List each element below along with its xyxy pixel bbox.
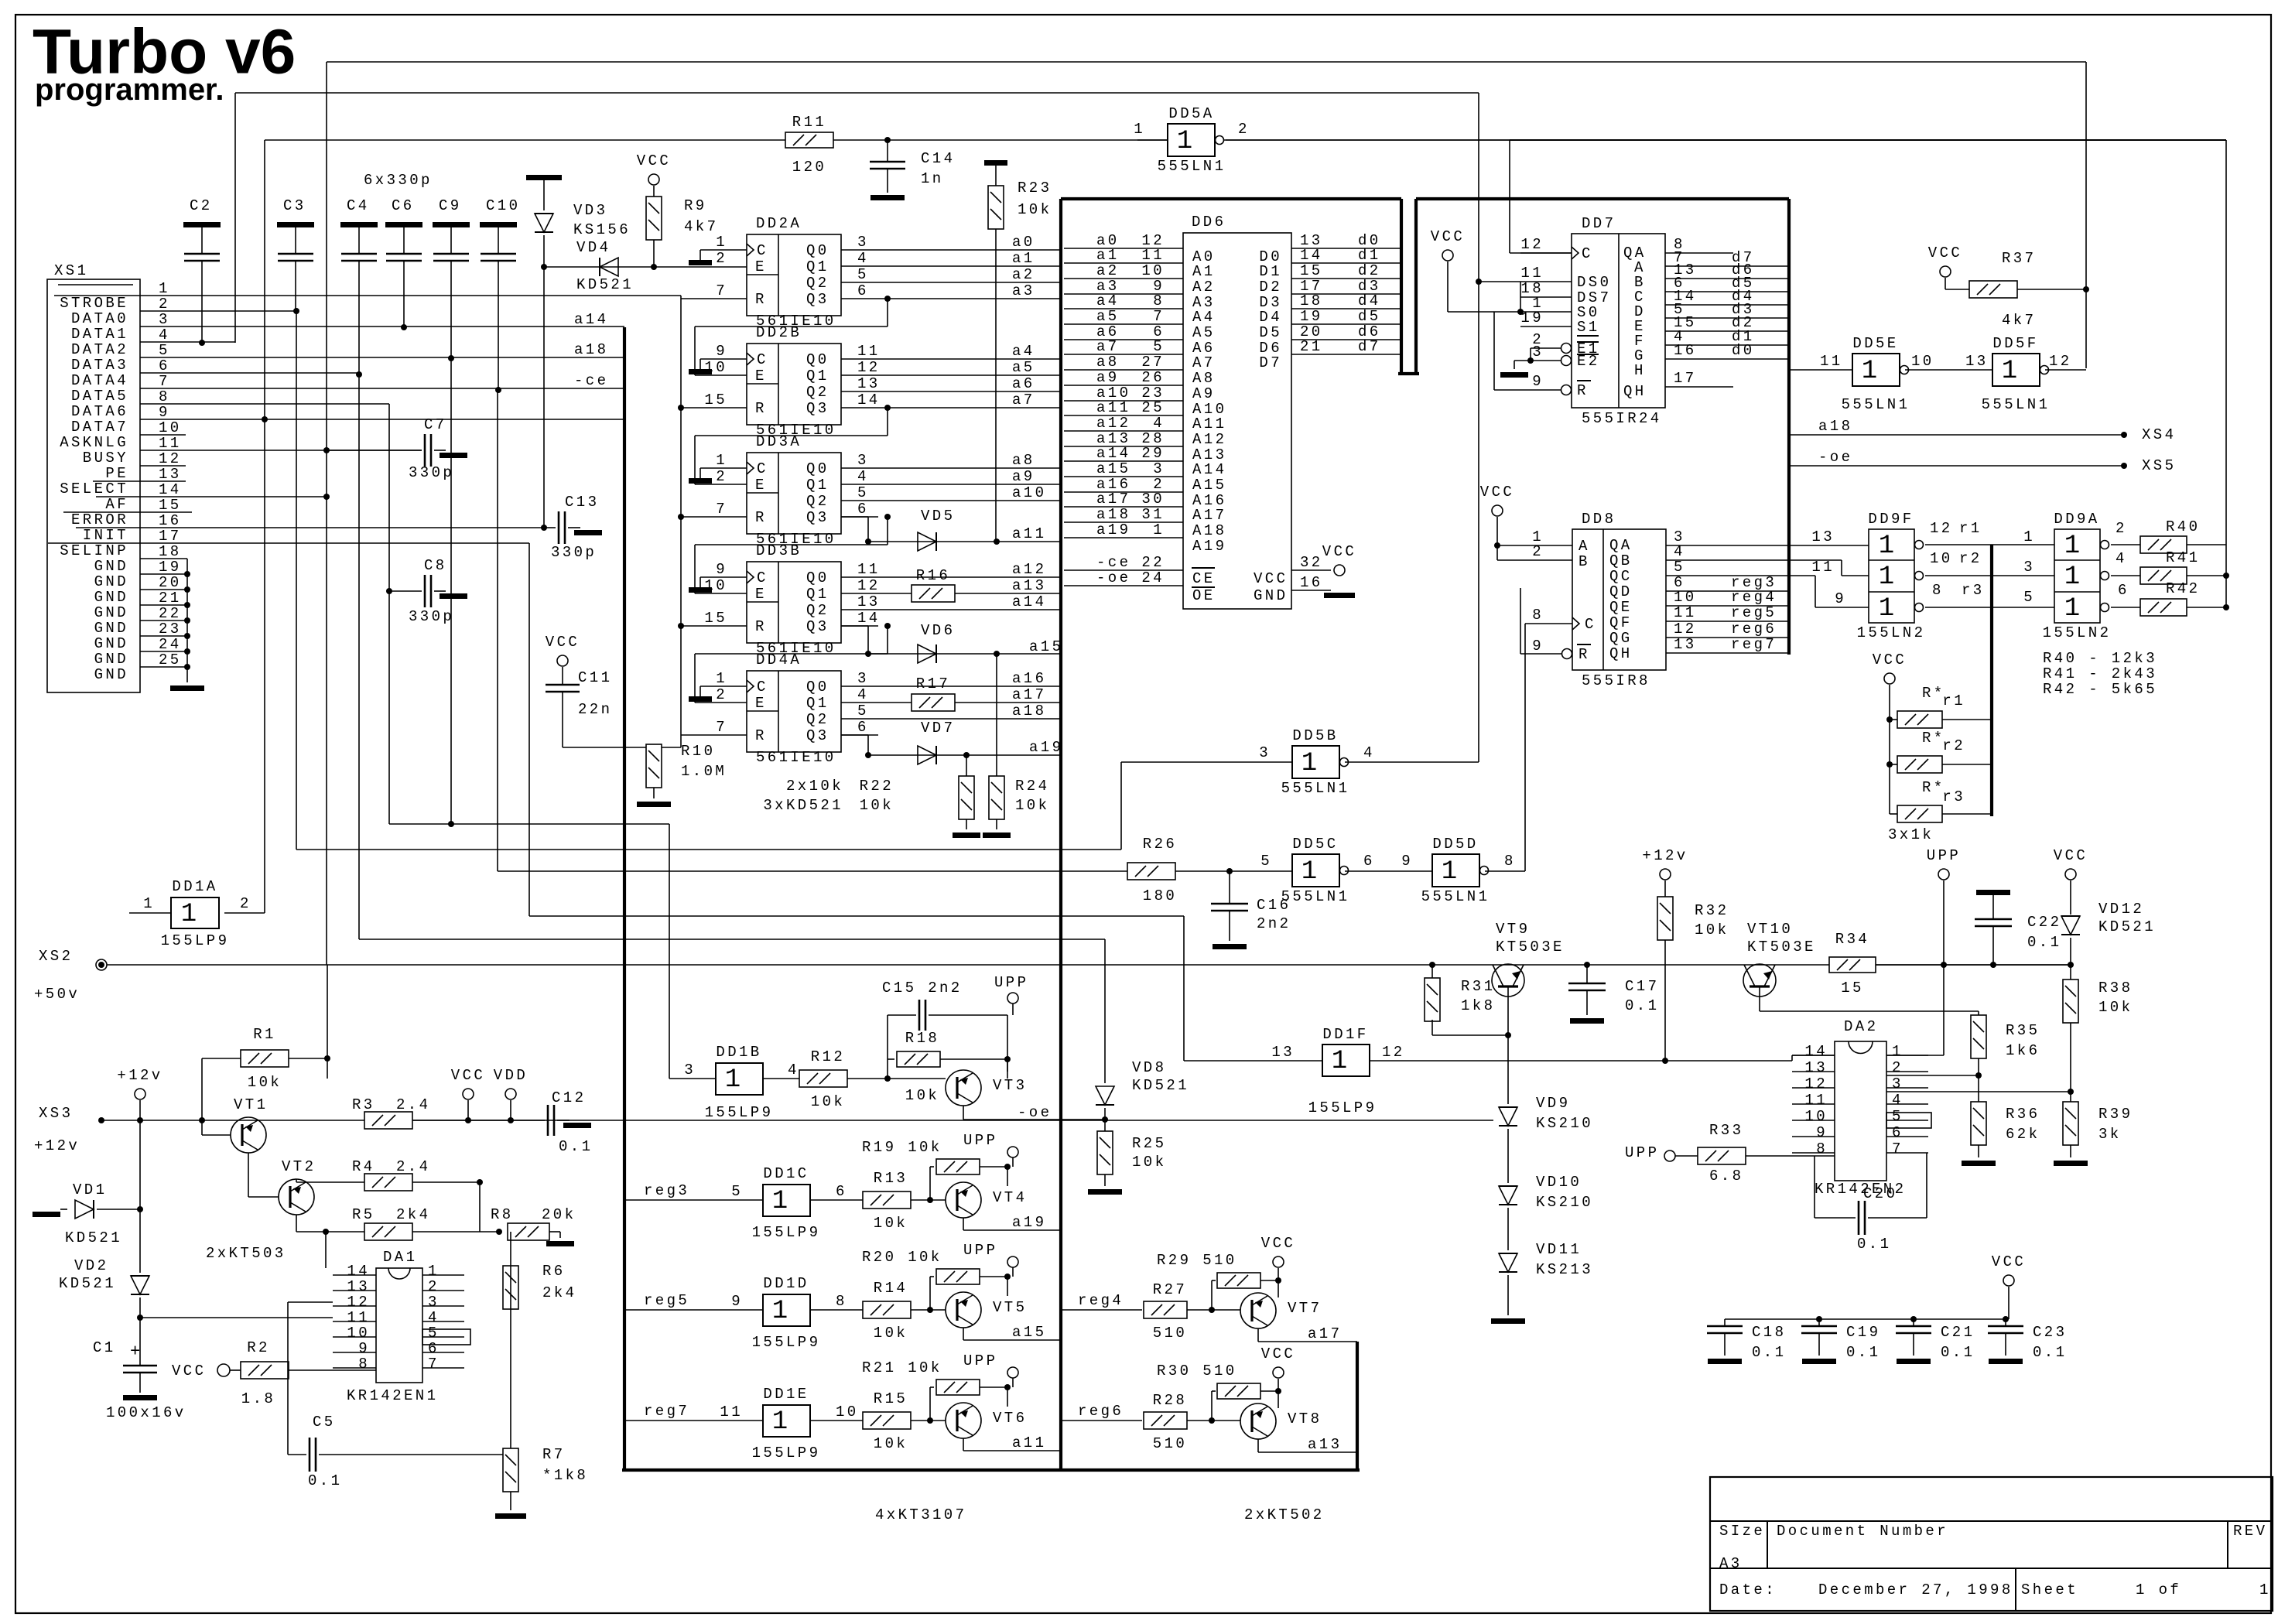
svg-text:C16: C16	[1257, 897, 1291, 914]
svg-text:R27: R27	[1153, 1281, 1187, 1298]
svg-text:A7: A7	[1192, 354, 1216, 371]
svg-text:KT503E: KT503E	[1496, 939, 1565, 956]
svg-text:AF: AF	[105, 496, 128, 513]
svg-text:Q0: Q0	[806, 242, 829, 259]
svg-text:1: 1	[1862, 357, 1877, 386]
svg-text:a8: a8	[1012, 452, 1035, 469]
svg-text:a0: a0	[1012, 234, 1035, 251]
svg-text:reg5: reg5	[1731, 604, 1777, 621]
svg-text:Document Number: Document Number	[1777, 1523, 1948, 1540]
svg-text:+: +	[130, 1342, 140, 1362]
svg-text:DA1: DA1	[383, 1249, 417, 1266]
svg-text:155LP9: 155LP9	[752, 1334, 821, 1351]
svg-text:4: 4	[1674, 543, 1685, 560]
svg-text:4: 4	[2116, 550, 2127, 567]
svg-text:VD5: VD5	[921, 508, 955, 525]
svg-text:a1: a1	[1012, 250, 1035, 267]
svg-text:0.1: 0.1	[1752, 1344, 1786, 1361]
svg-text:12: 12	[857, 577, 881, 594]
svg-text:21: 21	[1300, 338, 1323, 355]
svg-text:XS3: XS3	[39, 1105, 73, 1122]
svg-text:QH: QH	[1609, 645, 1633, 662]
svg-text:1.0M: 1.0M	[681, 763, 727, 780]
svg-text:A18: A18	[1192, 522, 1226, 539]
svg-text:13: 13	[857, 375, 881, 392]
svg-text:16: 16	[1300, 574, 1323, 591]
svg-text:3: 3	[428, 1294, 440, 1311]
svg-text:DD5E: DD5E	[1852, 335, 1898, 352]
svg-text:C15 2n2: C15 2n2	[882, 980, 963, 997]
svg-text:4: 4	[857, 686, 869, 703]
svg-text:2: 2	[1532, 543, 1544, 560]
svg-text:3: 3	[1532, 344, 1544, 361]
svg-text:Date:: Date:	[1719, 1581, 1777, 1598]
svg-text:11: 11	[159, 435, 182, 452]
svg-text:8: 8	[1504, 853, 1516, 870]
svg-text:VCC: VCC	[1480, 484, 1514, 501]
svg-text:Sheet: Sheet	[2021, 1581, 2078, 1598]
svg-text:a12: a12	[1012, 561, 1046, 578]
svg-text:KR142EN1: KR142EN1	[347, 1387, 438, 1404]
svg-text:ASKNLG: ASKNLG	[60, 434, 128, 451]
svg-text:0.1: 0.1	[1846, 1344, 1880, 1361]
svg-text:25: 25	[1141, 399, 1165, 416]
svg-text:R35: R35	[2006, 1022, 2040, 1039]
svg-text:a13: a13	[1012, 577, 1046, 594]
svg-text:R8: R8	[491, 1206, 514, 1223]
svg-text:DATA4: DATA4	[71, 372, 128, 389]
svg-text:10k: 10k	[2098, 999, 2133, 1016]
svg-text:10: 10	[1911, 353, 1934, 370]
svg-text:GND: GND	[94, 666, 128, 683]
svg-text:3: 3	[1259, 744, 1271, 761]
svg-text:UPP: UPP	[994, 974, 1028, 991]
svg-text:GND: GND	[94, 620, 128, 637]
svg-text:a18: a18	[1818, 418, 1852, 435]
svg-text:KS210: KS210	[1536, 1194, 1593, 1211]
svg-text:A17: A17	[1192, 507, 1226, 524]
svg-text:8: 8	[1816, 1140, 1828, 1157]
svg-text:8: 8	[1932, 582, 1944, 599]
svg-text:R: R	[755, 509, 767, 526]
svg-text:a10: a10	[1012, 484, 1046, 501]
svg-text:Q0: Q0	[806, 351, 829, 368]
svg-text:C: C	[757, 460, 768, 477]
svg-text:VT2: VT2	[282, 1158, 316, 1175]
svg-text:10: 10	[836, 1403, 859, 1421]
svg-text:561IE10: 561IE10	[756, 749, 836, 766]
svg-text:GND: GND	[94, 573, 128, 590]
svg-text:11: 11	[347, 1309, 370, 1326]
svg-text:DA2: DA2	[1844, 1018, 1878, 1035]
svg-text:ERROR: ERROR	[71, 511, 128, 528]
svg-text:R6: R6	[542, 1263, 566, 1280]
svg-text:R10: R10	[681, 743, 715, 760]
svg-text:17: 17	[159, 528, 182, 545]
svg-text:reg3: reg3	[644, 1182, 689, 1199]
svg-text:A15: A15	[1192, 477, 1226, 494]
svg-text:1k8: 1k8	[1461, 997, 1495, 1014]
svg-text:4: 4	[159, 327, 170, 344]
svg-text:Q0: Q0	[806, 679, 829, 696]
svg-text:VT9: VT9	[1496, 921, 1530, 938]
svg-text:Q3: Q3	[806, 618, 829, 635]
svg-text:VT8: VT8	[1288, 1410, 1322, 1427]
svg-text:10k: 10k	[1015, 797, 1049, 814]
svg-text:4: 4	[857, 250, 869, 267]
svg-text:6: 6	[159, 357, 170, 374]
svg-text:2k4: 2k4	[396, 1206, 430, 1223]
svg-text:2x10k: 2x10k	[786, 778, 843, 795]
svg-text:QB: QB	[1609, 552, 1633, 569]
svg-text:3: 3	[1153, 460, 1165, 477]
svg-text:QC: QC	[1609, 568, 1633, 585]
svg-text:reg5: reg5	[644, 1292, 689, 1309]
svg-text:XS4: XS4	[2142, 426, 2176, 443]
svg-text:a18: a18	[574, 341, 608, 358]
svg-text:25: 25	[159, 651, 182, 668]
svg-text:555IR24: 555IR24	[1582, 410, 1662, 427]
svg-text:R7: R7	[542, 1446, 566, 1463]
svg-text:R2: R2	[247, 1339, 270, 1356]
svg-text:a16: a16	[1012, 670, 1046, 687]
svg-text:GND: GND	[1254, 587, 1288, 604]
svg-text:0.1: 0.1	[559, 1138, 593, 1155]
svg-text:a7: a7	[1096, 338, 1120, 355]
svg-text:a15: a15	[1012, 1324, 1046, 1341]
svg-text:VD1: VD1	[73, 1181, 107, 1198]
svg-text:1: 1	[1134, 121, 1145, 138]
svg-text:R36: R36	[2006, 1106, 2040, 1123]
svg-text:DD5B: DD5B	[1292, 727, 1338, 744]
svg-text:QD: QD	[1609, 583, 1633, 600]
svg-text:a4: a4	[1012, 343, 1035, 360]
svg-text:5: 5	[1153, 338, 1165, 355]
svg-text:a19: a19	[1096, 521, 1130, 538]
svg-text:DD1B: DD1B	[716, 1044, 761, 1061]
svg-text:32: 32	[1300, 554, 1323, 571]
svg-text:DD6: DD6	[1192, 214, 1226, 231]
svg-text:26: 26	[1141, 369, 1165, 386]
svg-text:D4: D4	[1259, 309, 1282, 326]
svg-text:155LP9: 155LP9	[752, 1445, 821, 1462]
svg-text:DD1D: DD1D	[763, 1275, 809, 1292]
svg-text:QG: QG	[1609, 630, 1633, 647]
svg-text:KD521: KD521	[2098, 918, 2156, 935]
svg-text:R4: R4	[352, 1158, 375, 1175]
svg-text:VCC: VCC	[546, 634, 580, 651]
svg-text:R30 510: R30 510	[1157, 1362, 1237, 1380]
svg-text:22: 22	[1141, 554, 1165, 571]
svg-text:XS5: XS5	[2142, 457, 2176, 474]
svg-text:OE: OE	[1192, 587, 1216, 604]
svg-text:C1: C1	[93, 1339, 116, 1356]
svg-text:9: 9	[358, 1340, 370, 1357]
svg-text:22n: 22n	[578, 701, 612, 718]
svg-text:1: 1	[143, 895, 155, 912]
svg-text:14: 14	[857, 610, 881, 627]
svg-text:510: 510	[1153, 1435, 1187, 1452]
svg-text:16: 16	[159, 512, 182, 529]
svg-text:D1: D1	[1259, 263, 1282, 280]
svg-text:6: 6	[1892, 1124, 1903, 1141]
svg-text:1: 1	[159, 280, 170, 297]
svg-text:13: 13	[1271, 1044, 1295, 1061]
svg-text:10: 10	[1141, 262, 1165, 279]
svg-text:E: E	[755, 477, 767, 494]
svg-text:XS2: XS2	[39, 948, 73, 965]
svg-text:3k: 3k	[2098, 1126, 2122, 1143]
svg-text:Q1: Q1	[806, 586, 829, 603]
svg-text:22: 22	[159, 605, 182, 622]
svg-text:R17: R17	[916, 675, 950, 692]
svg-text:19: 19	[1300, 308, 1323, 325]
svg-text:6x330p: 6x330p	[364, 172, 433, 189]
svg-text:QE: QE	[1609, 599, 1633, 616]
svg-text:4: 4	[788, 1062, 799, 1079]
svg-text:12: 12	[857, 359, 881, 376]
svg-text:KT503E: KT503E	[1747, 939, 1816, 956]
svg-text:D7: D7	[1259, 354, 1282, 371]
svg-text:13: 13	[1804, 1059, 1828, 1076]
svg-text:6: 6	[1363, 853, 1375, 870]
svg-text:a13: a13	[1308, 1436, 1342, 1453]
svg-text:10k: 10k	[905, 1087, 939, 1104]
svg-text:1: 1	[772, 1187, 788, 1216]
svg-text:a14: a14	[1096, 445, 1130, 462]
svg-text:-ce: -ce	[574, 372, 608, 389]
svg-text:555LN1: 555LN1	[1842, 396, 1910, 413]
svg-text:9: 9	[1532, 638, 1544, 655]
svg-text:14: 14	[159, 481, 182, 498]
svg-text:Q1: Q1	[806, 368, 829, 385]
svg-text:155LP9: 155LP9	[1308, 1099, 1377, 1116]
svg-text:C14: C14	[921, 150, 955, 167]
svg-text:1: 1	[1879, 594, 1894, 624]
svg-text:R31: R31	[1461, 978, 1495, 995]
svg-text:R11: R11	[792, 114, 826, 131]
svg-text:14: 14	[1300, 247, 1323, 264]
svg-text:VCC: VCC	[1928, 244, 1962, 262]
svg-text:D5: D5	[1259, 324, 1282, 341]
svg-text:1: 1	[1879, 562, 1894, 592]
svg-text:13: 13	[1965, 353, 1989, 370]
svg-text:R37: R37	[2002, 250, 2036, 267]
svg-text:-ce: -ce	[1096, 554, 1130, 571]
svg-text:1: 1	[2023, 528, 2035, 545]
svg-text:a14: a14	[1012, 593, 1046, 610]
svg-text:VCC: VCC	[1431, 228, 1465, 245]
svg-text:DATA2: DATA2	[71, 341, 128, 358]
svg-text:REV: REV	[2233, 1523, 2267, 1540]
svg-text:12: 12	[347, 1294, 370, 1311]
svg-text:KD521: KD521	[1132, 1077, 1189, 1094]
svg-text:0.1: 0.1	[2027, 934, 2061, 951]
svg-text:C4: C4	[347, 197, 370, 214]
svg-text:VD3: VD3	[573, 202, 607, 219]
svg-text:a18: a18	[1012, 703, 1046, 720]
svg-text:12: 12	[159, 450, 182, 467]
svg-text:reg4: reg4	[1731, 589, 1777, 606]
svg-text:R41: R41	[2166, 549, 2200, 566]
svg-text:R28: R28	[1153, 1392, 1187, 1409]
svg-text:r1: r1	[1959, 520, 1982, 537]
svg-text:A8: A8	[1192, 370, 1216, 387]
svg-text:1n: 1n	[921, 170, 944, 187]
svg-text:INIT: INIT	[83, 527, 128, 544]
svg-text:7: 7	[1892, 1140, 1903, 1157]
svg-text:Q3: Q3	[806, 727, 829, 744]
svg-text:R42 - 5k65: R42 - 5k65	[2043, 681, 2157, 698]
svg-text:11: 11	[720, 1403, 743, 1421]
svg-text:C21: C21	[1941, 1324, 1975, 1341]
svg-text:R*: R*	[1922, 685, 1945, 702]
svg-text:10: 10	[1674, 589, 1697, 606]
svg-text:C10: C10	[486, 197, 520, 214]
svg-text:d1: d1	[1358, 247, 1381, 264]
svg-text:Q0: Q0	[806, 460, 829, 477]
svg-text:DD5A: DD5A	[1168, 105, 1214, 122]
svg-text:2xKT503: 2xKT503	[206, 1245, 286, 1262]
svg-text:reg6: reg6	[1078, 1403, 1124, 1420]
svg-text:R*: R*	[1922, 779, 1945, 796]
svg-text:reg6: reg6	[1731, 621, 1777, 638]
svg-text:S1: S1	[1577, 319, 1600, 336]
svg-text:E: E	[755, 368, 767, 385]
svg-text:1: 1	[1177, 127, 1192, 156]
svg-text:R*: R*	[1922, 730, 1945, 747]
svg-text:VT3: VT3	[993, 1077, 1027, 1094]
svg-text:C23: C23	[2033, 1324, 2067, 1341]
svg-text:A9: A9	[1192, 385, 1216, 402]
svg-text:r3: r3	[1942, 788, 1965, 805]
svg-text:30: 30	[1141, 491, 1165, 508]
svg-text:24: 24	[159, 636, 182, 653]
svg-text:Q2: Q2	[806, 384, 829, 401]
svg-text:2.4: 2.4	[396, 1158, 430, 1175]
svg-text:1.8: 1.8	[241, 1390, 275, 1407]
svg-text:a9: a9	[1096, 369, 1120, 386]
svg-text:R32: R32	[1695, 902, 1729, 919]
svg-text:9: 9	[731, 1293, 743, 1310]
svg-text:C7: C7	[424, 416, 447, 433]
svg-text:17: 17	[1674, 370, 1697, 387]
svg-text:R38: R38	[2098, 980, 2133, 997]
svg-text:+12v: +12v	[1642, 847, 1688, 864]
svg-text:DS0: DS0	[1577, 274, 1611, 291]
svg-text:VD9: VD9	[1536, 1095, 1570, 1112]
svg-text:1: 1	[181, 900, 197, 929]
svg-text:Q1: Q1	[806, 258, 829, 275]
svg-text:a19: a19	[1012, 1214, 1046, 1231]
svg-text:VD4: VD4	[576, 239, 611, 256]
svg-text:3: 3	[684, 1062, 696, 1079]
svg-text:+12v: +12v	[117, 1067, 162, 1084]
svg-text:DATA7: DATA7	[71, 419, 128, 436]
svg-text:10: 10	[159, 419, 182, 436]
svg-text:R24: R24	[1015, 778, 1049, 795]
svg-text:R13: R13	[874, 1170, 908, 1187]
svg-text:4xKT3107: 4xKT3107	[875, 1506, 966, 1523]
svg-text:12: 12	[1674, 621, 1697, 638]
svg-text:r3: r3	[1962, 582, 1985, 599]
svg-text:a5: a5	[1096, 308, 1120, 325]
svg-text:8: 8	[836, 1293, 847, 1310]
svg-text:3x1k: 3x1k	[1888, 826, 1934, 843]
svg-text:VD10: VD10	[1536, 1174, 1582, 1191]
svg-text:3xKD521: 3xKD521	[763, 797, 843, 814]
svg-text:reg7: reg7	[644, 1403, 689, 1420]
svg-text:QA: QA	[1609, 537, 1633, 554]
svg-text:6: 6	[857, 719, 869, 736]
svg-text:18: 18	[1300, 292, 1323, 309]
svg-text:10k: 10k	[1132, 1154, 1166, 1171]
svg-text:a15: a15	[1096, 460, 1130, 477]
svg-text:0.1: 0.1	[2033, 1344, 2067, 1361]
svg-text:Q1: Q1	[806, 477, 829, 494]
svg-text:DD1C: DD1C	[763, 1165, 809, 1182]
svg-text:a4: a4	[1096, 292, 1120, 309]
svg-text:6: 6	[857, 501, 869, 518]
svg-text:KD521: KD521	[59, 1275, 116, 1292]
svg-text:R22: R22	[860, 778, 894, 795]
svg-text:R: R	[755, 291, 767, 308]
svg-text:R1: R1	[253, 1026, 276, 1043]
svg-text:15: 15	[704, 610, 727, 627]
svg-text:VD7: VD7	[921, 720, 955, 737]
svg-text:9: 9	[159, 404, 170, 421]
svg-text:DD2A: DD2A	[756, 215, 802, 232]
svg-text:DD7: DD7	[1582, 215, 1616, 232]
svg-text:330p: 330p	[409, 464, 454, 481]
svg-text:DD8: DD8	[1582, 511, 1616, 528]
svg-text:1: 1	[1879, 532, 1894, 561]
svg-text:QF: QF	[1609, 614, 1633, 631]
svg-text:5: 5	[159, 342, 170, 359]
svg-text:11: 11	[1820, 353, 1843, 370]
svg-text:GND: GND	[94, 635, 128, 652]
svg-text:programmer.: programmer.	[35, 73, 224, 107]
svg-text:155LP9: 155LP9	[161, 932, 230, 949]
svg-text:13: 13	[159, 466, 182, 483]
svg-text:Q3: Q3	[806, 509, 829, 526]
svg-text:8: 8	[159, 388, 170, 405]
svg-text:C19: C19	[1846, 1324, 1880, 1341]
svg-text:1: 1	[1892, 1043, 1903, 1060]
svg-text:1: 1	[1301, 749, 1317, 778]
svg-text:VT7: VT7	[1288, 1300, 1322, 1317]
svg-text:15: 15	[159, 497, 182, 514]
svg-text:D2: D2	[1259, 279, 1282, 296]
svg-text:R12: R12	[811, 1048, 845, 1065]
svg-text:A12: A12	[1192, 431, 1226, 448]
svg-text:5: 5	[428, 1325, 440, 1342]
svg-text:24: 24	[1141, 569, 1165, 586]
svg-text:11: 11	[857, 343, 881, 360]
svg-text:1: 1	[428, 1263, 440, 1280]
svg-text:A3: A3	[1719, 1555, 1743, 1572]
svg-text:1: 1	[2064, 594, 2080, 624]
svg-text:R: R	[755, 727, 767, 744]
svg-text:reg7: reg7	[1731, 636, 1777, 653]
svg-text:4k7: 4k7	[2002, 312, 2036, 329]
svg-text:Q2: Q2	[806, 602, 829, 619]
svg-text:555LN1: 555LN1	[1158, 158, 1226, 175]
svg-text:R3: R3	[352, 1096, 375, 1113]
svg-text:9: 9	[1401, 853, 1413, 870]
svg-text:R26: R26	[1143, 836, 1177, 853]
svg-text:C12: C12	[552, 1089, 586, 1106]
